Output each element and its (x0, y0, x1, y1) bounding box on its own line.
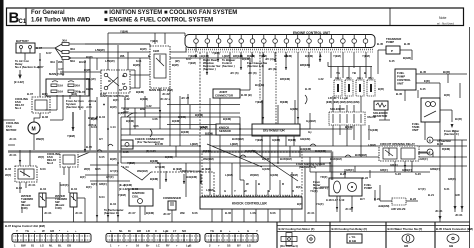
svg-text:B-45: B-45 (396, 92, 403, 96)
svg-text:B-02 Cooling Fan Motor (F): B-02 Cooling Fan Motor (F) (279, 227, 315, 231)
svg-text:Y: Y (256, 229, 258, 233)
svg-text:BrB(EM): BrB(EM) (245, 149, 256, 153)
svg-text:E: E (429, 151, 431, 155)
svg-text:YB: YB (352, 71, 356, 75)
svg-text:B/LW: B/LW (79, 60, 86, 64)
svg-text:B(W): B(W) (86, 55, 93, 59)
svg-text:8-04: 8-04 (91, 125, 97, 129)
svg-text:YG(F): YG(F) (310, 189, 318, 193)
svg-text:J/C 22: J/C 22 (181, 96, 190, 100)
svg-text:B(W): B(W) (140, 47, 147, 51)
svg-text:JC-01: JC-01 (307, 211, 315, 215)
svg-text:B(F): B(F) (86, 185, 92, 189)
svg-text:BrW(EM): BrW(EM) (330, 157, 342, 161)
svg-text:LC: LC (156, 244, 160, 248)
svg-text:Y(EM): Y(EM) (255, 138, 263, 142)
svg-text:GY(F): GY(F) (418, 187, 426, 191)
svg-text:L: L (110, 229, 112, 233)
svg-text:1995: 1995 (153, 49, 160, 53)
svg-text:JC-22 ♦: JC-22 ♦ (160, 97, 170, 101)
svg-text:YG: YG (25, 229, 29, 233)
svg-text:8-01: 8-01 (136, 59, 142, 63)
svg-text:B(EM): B(EM) (205, 132, 213, 136)
svg-text:8-06: 8-06 (192, 211, 198, 215)
svg-text:Y(EM): Y(EM) (212, 51, 220, 55)
svg-text:B-07: B-07 (79, 90, 86, 94)
svg-text:20A: 20A (75, 84, 80, 88)
svg-text:(Section C): (Section C) (444, 132, 459, 136)
svg-text:W: W (244, 189, 247, 193)
svg-text:W(EM): W(EM) (250, 173, 259, 177)
svg-text:JC-01: JC-01 (345, 207, 353, 211)
svg-text:R(EM): R(EM) (280, 100, 288, 104)
svg-text:Y(EM): Y(EM) (67, 134, 75, 138)
svg-text:1B: 1B (227, 244, 231, 248)
svg-text:30A: 30A (70, 47, 75, 51)
svg-text:B(EM): B(EM) (203, 149, 211, 153)
svg-text:60A: 60A (70, 59, 75, 63)
svg-text:L(EM): L(EM) (206, 188, 214, 192)
svg-text:B(EM): B(EM) (172, 119, 180, 123)
svg-text:B(F): B(F) (297, 202, 303, 206)
svg-text:GR(F): GR(F) (390, 163, 398, 167)
svg-text:B-06 (B): B-06 (B) (241, 93, 252, 97)
svg-text:Y(B/4): Y(B/4) (150, 39, 158, 43)
svg-text:J-04 ■: J-04 ■ (88, 99, 96, 103)
svg-text:L(EM): L(EM) (190, 142, 198, 146)
svg-text:G(F): G(F) (91, 182, 97, 186)
svg-text:B-22: B-22 (410, 197, 417, 201)
svg-text:1-06: 1-06 (250, 211, 256, 215)
svg-text:KNOCK CONTROLLER: KNOCK CONTROLLER (232, 202, 267, 206)
svg-text:GR: GR (404, 244, 408, 248)
svg-text:No.1 (Section G-a): No.1 (Section G-a) (15, 65, 39, 69)
svg-text:4-22: 4-22 (318, 77, 324, 81)
svg-text:Note: Note (439, 16, 446, 20)
svg-text:B-45: B-45 (305, 87, 312, 91)
svg-text:WB(F): WB(F) (36, 137, 44, 141)
svg-text:B-06: B-06 (225, 211, 232, 215)
svg-text:B: B (258, 182, 260, 186)
svg-text:WB(EM): WB(EM) (203, 157, 214, 161)
svg-text:GR(F): GR(F) (420, 157, 428, 161)
svg-text:SENSOR: SENSOR (219, 129, 231, 133)
svg-text:For General: For General (31, 10, 65, 16)
svg-text:B-21: B-21 (428, 193, 435, 197)
svg-text:LgB: LgB (163, 229, 168, 233)
svg-text:CONDENSER: CONDENSER (163, 196, 181, 200)
svg-text:B: B (364, 71, 366, 75)
svg-text:Br(R): Br(R) (443, 70, 450, 74)
svg-text:BrB(EM): BrB(EM) (300, 147, 311, 151)
svg-text:No.1: No.1 (15, 106, 22, 110)
svg-text:L(EM) Next page: L(EM) Next page (180, 169, 202, 173)
svg-text:B-02: B-02 (42, 115, 49, 119)
svg-text:JC-01: JC-01 (75, 211, 83, 215)
svg-text:JC-01: JC-01 (28, 183, 36, 187)
svg-text:B (EM): B (EM) (202, 167, 211, 171)
svg-text:GR(F): GR(F) (346, 168, 354, 172)
svg-text:(Section ): (Section ) (222, 64, 235, 68)
svg-text:G: G (224, 189, 226, 193)
svg-text:AIR VALVE: AIR VALVE (391, 207, 406, 211)
svg-text:W: W (42, 229, 45, 233)
svg-text:L(EM): L(EM) (230, 142, 238, 146)
svg-text:W(F): W(F) (5, 173, 11, 177)
svg-text:DISTRIBUTOR: DISTRIBUTOR (263, 129, 285, 133)
svg-text:■ 0-05: ■ 0-05 (155, 142, 164, 146)
svg-text:J-04: J-04 (86, 105, 92, 109)
svg-text:8-03: 8-03 (40, 167, 46, 171)
svg-text:B(W) ■: B(W) ■ (88, 116, 97, 120)
svg-text:B(EM): B(EM) (140, 97, 148, 101)
svg-text:MOTOR: MOTOR (6, 128, 16, 132)
svg-text:B-45: B-45 (420, 70, 427, 74)
svg-text:JC-01: JC-01 (9, 153, 17, 157)
svg-text:B(EM): B(EM) (150, 177, 158, 181)
svg-text:(B/4): (B/4) (71, 92, 77, 96)
svg-text:B(R): B(R) (378, 87, 384, 91)
svg-text:M: M (32, 127, 36, 133)
svg-text:B-03: B-03 (5, 167, 12, 171)
svg-text:W/L: W/L (120, 54, 125, 58)
svg-text:CIRCUIT OPENING RELAY: CIRCUIT OPENING RELAY (380, 142, 415, 146)
svg-text:B(GR): B(GR) (403, 56, 411, 60)
svg-text:Gy(EM): Gy(EM) (306, 119, 316, 123)
svg-text:1-04: 1-04 (123, 165, 129, 169)
svg-text:30A: 30A (62, 39, 67, 43)
svg-text:B-05: B-05 (86, 145, 93, 149)
svg-text:BrB: BrB (140, 107, 145, 111)
svg-text:PUMP: PUMP (364, 186, 372, 190)
svg-text:Y(EM): Y(EM) (333, 54, 341, 58)
svg-text:4-07: 4-07 (123, 110, 129, 114)
svg-text:B(EM): B(EM) (345, 125, 353, 129)
svg-text:R: R (282, 182, 284, 186)
svg-text:(8) 0-05: (8) 0-05 (146, 149, 156, 153)
svg-text:GR: GR (50, 229, 54, 233)
svg-text:NL: NL (49, 244, 53, 248)
svg-text:15A: 15A (58, 84, 63, 88)
svg-text:Gy: Gy (308, 130, 312, 134)
svg-text:JoB(EM): JoB(EM) (378, 204, 389, 208)
svg-text:GR(F): GR(F) (99, 182, 107, 186)
svg-text:B(W): B(W) (110, 157, 117, 161)
svg-text:GRB(F): GRB(F) (402, 168, 412, 172)
svg-text:S-26: S-26 (395, 172, 401, 176)
svg-text:JC-01: JC-01 (9, 137, 17, 141)
svg-text:UNIT: UNIT (397, 82, 404, 86)
svg-text:B: B (429, 139, 431, 143)
svg-text:BrB(EM): BrB(EM) (186, 175, 197, 179)
svg-text:B-22: B-22 (362, 176, 369, 180)
svg-text:■ ENGINE & FUEL CONTROL SYSTEM: ■ ENGINE & FUEL CONTROL SYSTEM (104, 18, 213, 24)
svg-text:JC-07: JC-07 (128, 211, 136, 215)
svg-text:LG: LG (40, 244, 44, 248)
svg-text:B-05 Check Connector (EM): B-05 Check Connector (EM) (436, 227, 473, 231)
svg-text:ST: ST (119, 88, 123, 92)
svg-text:8-07: 8-07 (38, 65, 44, 69)
svg-text:G: G (247, 229, 249, 233)
svg-text:JC-01: JC-01 (455, 213, 463, 217)
svg-text:B(EM): B(EM) (165, 155, 173, 159)
svg-text:(EM) (EM) (EM) (EM) (EM): (EM) (EM) (EM) (EM) (EM) (326, 100, 359, 104)
svg-text:B(EM): B(EM) (223, 117, 231, 121)
svg-text:BrY: BrY (360, 197, 365, 201)
svg-text:1.6ℓ Turbo With 4WD: 1.6ℓ Turbo With 4WD (31, 18, 91, 24)
svg-text:B(W): B(W) (133, 63, 140, 67)
svg-text:LgB: LgB (186, 244, 191, 248)
svg-text:IG: IG (108, 79, 111, 83)
svg-text:GR(F): GR(F) (448, 177, 456, 181)
svg-text:Br(EM): Br(EM) (255, 83, 264, 87)
svg-text:10A: 10A (58, 90, 63, 94)
svg-text:8-06: 8-06 (270, 211, 276, 215)
svg-text:4-14: 4-14 (110, 125, 116, 129)
svg-text:WB: WB (180, 211, 185, 215)
svg-text:GB(EM): GB(EM) (300, 137, 310, 141)
svg-text:w/ : Not Used: w/ : Not Used (437, 22, 454, 26)
svg-text:W/L(W): W/L(W) (86, 77, 96, 81)
svg-text:R: R (292, 189, 294, 193)
svg-text:GY(EM): GY(EM) (155, 165, 165, 169)
svg-text:Br(R): Br(R) (455, 117, 462, 121)
svg-text:BrW(EM): BrW(EM) (232, 137, 244, 141)
svg-text:0-05: 0-05 (123, 150, 129, 154)
svg-text:W/L: W/L (58, 60, 63, 64)
svg-text:B(W): B(W) (172, 63, 179, 67)
svg-text:RY: RY (166, 244, 170, 248)
svg-text:8-07: 8-07 (46, 51, 52, 55)
svg-text:J/C (8): J/C (8) (268, 67, 277, 71)
svg-text:UNIT: UNIT (412, 128, 419, 132)
svg-text:[2.4-02]: [2.4-02] (119, 187, 129, 191)
svg-text:W: W (246, 182, 249, 186)
svg-text:8-05: 8-05 (99, 155, 105, 159)
svg-text:B-04 Water Thermo Sw (F): B-04 Water Thermo Sw (F) (388, 227, 423, 231)
svg-text:GY(F): GY(F) (110, 169, 118, 173)
svg-text:B/LW: B/LW (86, 87, 93, 91)
svg-text:L: L (214, 189, 216, 193)
svg-text:[2.4-02]: [2.4-02] (14, 80, 24, 84)
svg-text:GR(F): GR(F) (380, 168, 388, 172)
svg-text:IG: IG (122, 74, 125, 78)
svg-text:■ IGNITION SYSTEM ■ COOLING: ■ IGNITION SYSTEM ■ COOLING FAN SYSTEM (104, 10, 237, 16)
svg-text:GB: GB (67, 244, 71, 248)
svg-text:30A: 30A (50, 60, 55, 64)
svg-text:B(R): B(R) (444, 93, 450, 97)
svg-text:B(W): B(W) (110, 105, 117, 109)
svg-text:LY: LY (173, 229, 176, 233)
svg-text:J/C (6): J/C (6) (230, 71, 239, 75)
svg-text:P: P (391, 49, 393, 53)
svg-text:B (EM): B (EM) (173, 167, 182, 171)
svg-text:CONNECTOR: CONNECTOR (215, 94, 233, 98)
svg-text:(Section C): (Section C) (104, 211, 119, 215)
svg-text:LG: LG (247, 244, 251, 248)
svg-text:8-21: 8-21 (444, 187, 450, 191)
svg-text:B GB: B GB (349, 239, 356, 243)
svg-text:E(R): E(R) (424, 79, 430, 83)
svg-text:L(EM): L(EM) (368, 143, 376, 147)
svg-text:YG(F): YG(F) (316, 202, 324, 206)
svg-text:G(EM): G(EM) (262, 167, 270, 171)
svg-text:4-32: 4-32 (146, 104, 152, 108)
svg-text:B-45: B-45 (377, 42, 384, 46)
svg-text:WB(EM): WB(EM) (137, 169, 148, 173)
svg-text:BY: BY (237, 244, 241, 248)
svg-text:B-07: B-07 (100, 92, 107, 96)
svg-text:BW: BW (21, 244, 26, 248)
svg-text:B(F): B(F) (296, 185, 302, 189)
svg-text:B(F): B(F) (80, 175, 86, 179)
svg-text:R(EM): R(EM) (442, 147, 450, 151)
svg-text:B(EM): B(EM) (195, 113, 203, 117)
svg-text:GY(F): GY(F) (106, 175, 114, 179)
svg-text:B-07 Engine Control Unit (EM): B-07 Engine Control Unit (EM) (5, 224, 45, 228)
svg-text:8-45: 8-45 (389, 59, 395, 63)
svg-text:(Section A-2): (Section A-2) (299, 165, 316, 169)
svg-text:G(EM): G(EM) (270, 173, 278, 177)
svg-text:BL: BL (58, 244, 62, 248)
svg-text:SOLENOID: SOLENOID (330, 107, 345, 111)
svg-text:GRB(F): GRB(F) (430, 167, 440, 171)
svg-text:G(EM): G(EM) (272, 138, 280, 142)
svg-text:B-45: B-45 (404, 42, 411, 46)
svg-text:4-06: 4-06 (133, 124, 139, 128)
svg-text:Y(B/4): Y(B/4) (120, 30, 128, 34)
svg-text:GW(F): GW(F) (60, 183, 68, 187)
svg-text:JC-07: JC-07 (163, 212, 171, 216)
svg-text:81: 81 (31, 244, 35, 248)
svg-text:8-45: 8-45 (420, 87, 426, 91)
svg-text:YR(F): YR(F) (320, 175, 328, 179)
svg-text:JC-22: JC-22 (162, 92, 170, 96)
svg-text:B(EM): B(EM) (242, 57, 250, 61)
svg-text:Y: Y (16, 229, 18, 233)
svg-text:B(EM): B(EM) (146, 211, 154, 215)
svg-text:J/C (8): J/C (8) (248, 71, 257, 75)
svg-text:NL: NL (119, 229, 123, 233)
svg-text:(On Connect): (On Connect) (280, 244, 298, 248)
svg-text:8-04: 8-04 (99, 195, 105, 199)
svg-text:BATTERY: BATTERY (16, 39, 29, 43)
svg-text:4-07: 4-07 (58, 67, 64, 71)
svg-text:4-06: 4-06 (152, 117, 158, 121)
svg-text:(Section G-a): (Section G-a) (66, 105, 83, 109)
svg-text:W(F): W(F) (38, 155, 44, 159)
svg-text:-C1: -C1 (17, 19, 27, 25)
svg-text:B(EM): B(EM) (136, 90, 144, 94)
svg-text:No.2: No.2 (47, 161, 54, 165)
svg-text:YG(EM): YG(EM) (368, 128, 378, 132)
svg-text:B-04: B-04 (71, 187, 78, 191)
svg-text:C: C (155, 229, 157, 233)
svg-text:B(EM): B(EM) (126, 119, 134, 123)
svg-text:YG: YG (210, 229, 214, 233)
svg-text:COIL: COIL (132, 195, 139, 199)
svg-text:B-04: B-04 (110, 202, 117, 206)
svg-text:PUMP: PUMP (386, 40, 394, 44)
svg-text:LR: LR (146, 229, 150, 233)
svg-text:B(EM): B(EM) (124, 183, 132, 187)
svg-text:L/W(W): L/W(W) (105, 59, 115, 63)
svg-text:BrW(EM): BrW(EM) (280, 157, 292, 161)
svg-text:R(EM): R(EM) (288, 138, 296, 142)
svg-text:B-04: B-04 (99, 115, 106, 119)
svg-text:BR(EM): BR(EM) (300, 63, 310, 67)
svg-text:Y(EM): Y(EM) (188, 61, 196, 65)
svg-text:B-06: B-06 (132, 187, 139, 191)
svg-text:S-20: S-20 (415, 172, 421, 176)
svg-text:B: B (268, 189, 270, 193)
svg-text:C4D): C4D) (55, 206, 62, 210)
svg-text:B(EM): B(EM) (284, 54, 292, 58)
svg-text:ST: ST (122, 82, 126, 86)
svg-text:9-18 0-17 1-10: 9-18 0-17 1-10 (326, 198, 345, 202)
svg-text:G(EM): G(EM) (290, 107, 298, 111)
svg-text:BR(EM): BR(EM) (280, 77, 290, 81)
svg-text:B(F): B(F) (113, 98, 119, 102)
svg-text:GW: GW (455, 193, 460, 197)
svg-text:Y(EM): Y(EM) (118, 193, 126, 197)
svg-text:BrB(EM): BrB(EM) (315, 149, 326, 153)
svg-text:(Section 3-4): (Section 3-4) (247, 64, 264, 68)
svg-text:B+: B+ (146, 244, 150, 248)
svg-text:B-04: B-04 (40, 187, 47, 191)
svg-text:B-07: B-07 (27, 92, 34, 96)
svg-text:16: 16 (136, 244, 140, 248)
svg-text:JC-01: JC-01 (435, 209, 443, 213)
svg-text:GY: GY (99, 137, 103, 141)
svg-text:Y: Y (234, 189, 236, 193)
svg-text:Y(EM): Y(EM) (255, 100, 263, 104)
svg-text:JC-01: JC-01 (44, 211, 52, 215)
svg-text:B-03 Cooling Fan Relay (F): B-03 Cooling Fan Relay (F) (332, 227, 368, 231)
svg-text:B-03: B-03 (16, 186, 23, 190)
svg-text:B(F): B(F) (42, 92, 48, 96)
svg-text:BR: BR (137, 229, 141, 233)
svg-text:J/C (4): J/C (4) (265, 57, 274, 61)
svg-text:L/W(W): L/W(W) (95, 48, 105, 52)
svg-text:B(EM): B(EM) (181, 130, 189, 134)
svg-text:GB: GB (449, 244, 453, 248)
svg-text:(Section ): (Section ) (203, 67, 216, 71)
svg-text:8-05: 8-05 (95, 167, 101, 171)
svg-text:L(EM): L(EM) (225, 173, 233, 177)
svg-text:B: B (220, 229, 222, 233)
svg-text:W(F): W(F) (84, 167, 90, 171)
